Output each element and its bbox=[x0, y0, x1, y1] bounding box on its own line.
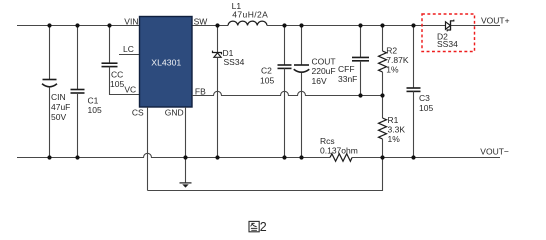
svg-text:VC: VC bbox=[124, 84, 136, 94]
wire current sense return bbox=[148, 158, 383, 191]
svg-text:7.87K: 7.87K bbox=[386, 55, 409, 65]
svg-text:CC: CC bbox=[111, 69, 123, 79]
capacitor CFF bbox=[360, 26, 362, 58]
capacitor C2 bbox=[284, 26, 286, 65]
op-amp U1 XL4301 regulator IC bbox=[140, 17, 193, 108]
capacitor C3 bbox=[413, 26, 415, 88]
svg-text:1%: 1% bbox=[386, 65, 399, 75]
resistor Rcs bbox=[330, 154, 352, 162]
svg-text:SS34: SS34 bbox=[437, 39, 458, 49]
caption figure 2 (drawn CJK glyph) bbox=[249, 221, 259, 231]
svg-text:CS: CS bbox=[132, 108, 144, 118]
svg-text:GND: GND bbox=[165, 108, 184, 118]
resistor R2 bbox=[382, 26, 384, 52]
svg-text:0.137ohm: 0.137ohm bbox=[320, 145, 358, 155]
svg-text:XL4301: XL4301 bbox=[151, 57, 181, 67]
svg-text:47uF: 47uF bbox=[51, 102, 70, 112]
wire SW to inductor bbox=[192, 25, 228, 27]
svg-text:VOUT−: VOUT− bbox=[480, 146, 509, 156]
svg-text:C3: C3 bbox=[419, 93, 430, 103]
red dashed highlight box bbox=[422, 14, 475, 52]
svg-text:R1: R1 bbox=[388, 115, 399, 125]
svg-text:COUT: COUT bbox=[312, 56, 336, 66]
diode D2 SS34 bbox=[446, 22, 451, 30]
svg-text:VIN: VIN bbox=[124, 16, 138, 26]
svg-text:CIN: CIN bbox=[51, 92, 66, 102]
svg-text:16V: 16V bbox=[312, 76, 327, 86]
svg-text:R2: R2 bbox=[386, 46, 397, 56]
svg-text:SS34: SS34 bbox=[224, 57, 245, 67]
capacitor CC bbox=[109, 26, 111, 63]
svg-text:VOUT+: VOUT+ bbox=[481, 15, 510, 25]
svg-text:220uF: 220uF bbox=[312, 66, 336, 76]
svg-text:C1: C1 bbox=[88, 96, 99, 106]
resistor R1 bbox=[382, 96, 384, 119]
wire inductor to D2 bbox=[267, 25, 446, 27]
svg-text:SW: SW bbox=[194, 16, 208, 26]
wire GND pin down bbox=[185, 107, 187, 158]
svg-text:33nF: 33nF bbox=[338, 74, 357, 84]
diode D1 SS34 bbox=[217, 26, 219, 53]
svg-text:3.3K: 3.3K bbox=[388, 125, 406, 135]
svg-text:1%: 1% bbox=[388, 134, 401, 144]
node LC pin stub bbox=[119, 54, 140, 56]
capacitor CIN bbox=[49, 26, 51, 80]
wire FB net bbox=[192, 91, 383, 95]
inductor L1 bbox=[228, 21, 267, 25]
wire D2 to VOUT+ bbox=[451, 25, 501, 27]
wire bottom rail left bbox=[17, 153, 330, 157]
svg-text:105: 105 bbox=[260, 75, 274, 85]
svg-text:LC: LC bbox=[123, 44, 134, 54]
capacitor COUT bbox=[301, 26, 303, 65]
svg-text:105: 105 bbox=[88, 105, 102, 115]
svg-text:50V: 50V bbox=[51, 112, 66, 122]
svg-text:47uH/2A: 47uH/2A bbox=[232, 9, 268, 19]
capacitor C1 bbox=[77, 26, 79, 90]
svg-text:C2: C2 bbox=[261, 66, 272, 76]
svg-text:CFF: CFF bbox=[338, 64, 355, 74]
wire bottom rail right bbox=[352, 157, 500, 159]
ground bbox=[185, 158, 187, 183]
svg-text:105: 105 bbox=[419, 103, 433, 113]
svg-text:105: 105 bbox=[110, 79, 124, 89]
node junction dots bbox=[47, 23, 415, 159]
svg-text:2: 2 bbox=[260, 220, 267, 234]
svg-text:FB: FB bbox=[195, 86, 206, 96]
wire CS pin down bbox=[147, 107, 149, 191]
wire top input rail bbox=[17, 25, 140, 27]
